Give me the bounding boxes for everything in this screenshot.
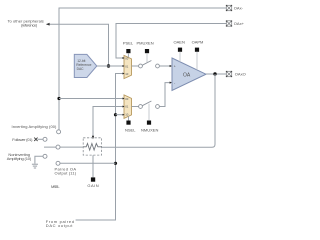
svg-text:(reference): (reference) bbox=[21, 23, 38, 28]
svg-text:DAC: DAC bbox=[77, 67, 85, 71]
NSEL control square and stem bbox=[128, 116, 130, 120]
arrowhead to other peripherals bbox=[46, 23, 50, 26]
svg-text:DAC output: DAC output bbox=[46, 223, 73, 228]
wire NSEL input 10 bbox=[116, 114, 125, 116]
mux NSEL bbox=[123, 95, 132, 119]
svg-text:Inverting Amplifying (00): Inverting Amplifying (00) bbox=[12, 124, 58, 129]
svg-text:NSEL: NSEL bbox=[125, 128, 136, 133]
switch PMUXEN: contacts and arm bbox=[139, 61, 160, 68]
OAEN control square and line bbox=[178, 48, 182, 52]
switch pole MSEL bbox=[56, 145, 60, 149]
GAIN control square bbox=[91, 177, 95, 181]
svg-text:PSEL: PSEL bbox=[123, 40, 134, 45]
wire resistor bottom to GAIN bbox=[92, 155, 94, 177]
NMUXEN control square and line bbox=[148, 104, 150, 121]
svg-text:01: 01 bbox=[125, 64, 129, 68]
svg-text:MSEL: MSEL bbox=[51, 184, 60, 189]
node junction NSEL input 10 bbox=[114, 113, 117, 116]
svg-text:GAIN: GAIN bbox=[87, 183, 98, 188]
svg-text:Follower (01): Follower (01) bbox=[12, 137, 33, 142]
svg-text:Output (11): Output (11) bbox=[55, 171, 77, 176]
switch contact MSEL (01) follower bbox=[43, 137, 47, 141]
DAC U1: 12-bit Reference DAC bbox=[74, 54, 97, 77]
no-connect X for follower option bbox=[34, 138, 37, 141]
svg-text:+: + bbox=[174, 65, 176, 69]
node junction paired line to MSEL (11) row bbox=[114, 162, 117, 165]
wire OAx- net: pin to left vertical down to MSEL (00) contact bbox=[59, 8, 226, 130]
wire DAC output to PSEL input 01 bbox=[97, 65, 124, 67]
svg-text:10: 10 bbox=[125, 113, 129, 117]
switch contact MSEL (10) noninverting bbox=[43, 154, 47, 158]
arrowhead into resistor bbox=[92, 136, 94, 140]
op-amp OA bbox=[172, 58, 206, 91]
wire follower X to contact bbox=[38, 138, 43, 140]
resistor (programmable, dashed box) bbox=[83, 138, 101, 155]
svg-text:00: 00 bbox=[125, 97, 129, 101]
wire switch to op-amp + input bbox=[159, 65, 170, 67]
wire resistor top to NSEL input 01 bbox=[93, 107, 124, 137]
svg-text:10: 10 bbox=[125, 72, 129, 76]
wire PSEL control stem bbox=[127, 53, 129, 57]
PMUXEN control square and line bbox=[145, 49, 149, 53]
PSEL control square bbox=[126, 49, 130, 53]
svg-text:Amplifying (10): Amplifying (10) bbox=[7, 156, 32, 161]
OAPM control square and line bbox=[195, 48, 199, 52]
wire feedback from output down and left to resistor bbox=[102, 74, 215, 147]
svg-text:OAx+: OAx+ bbox=[234, 21, 245, 26]
wire paired DAC output vertical net bbox=[76, 74, 124, 221]
wire OAx+ net: pin to PSEL input 00 bbox=[116, 24, 226, 59]
wire MSEL (11) row to paired vertical bbox=[58, 162, 116, 164]
switch NMUXEN: contacts and arm bbox=[139, 101, 160, 108]
wire MSEL pole row to resistor left bbox=[44, 146, 83, 148]
svg-text:01: 01 bbox=[125, 105, 129, 109]
wire PSEL mux output bbox=[132, 65, 139, 67]
wire ground to noninverting contact bbox=[35, 156, 43, 163]
ground bbox=[32, 164, 38, 168]
wire NSEL mux output bbox=[132, 106, 139, 108]
pin OAx- bbox=[226, 5, 244, 11]
wire switch to op-amp - input bbox=[159, 83, 170, 107]
switch contact MSEL (11) paired bbox=[56, 161, 60, 165]
node output junction bbox=[213, 72, 216, 75]
wire NSEL input 00 bbox=[59, 98, 124, 100]
wire op-amp output to pin bbox=[206, 73, 226, 75]
svg-text:PMUXEN: PMUXEN bbox=[137, 40, 154, 45]
svg-text:OAx-: OAx- bbox=[234, 6, 244, 11]
switch contact MSEL (00) inverting bbox=[57, 130, 61, 134]
svg-text:NMUXEN: NMUXEN bbox=[141, 128, 158, 133]
svg-text:OA: OA bbox=[183, 72, 191, 78]
wire reference net to other peripherals bbox=[47, 24, 109, 66]
node junction on OAx- vertical feeding NSEL input 00 bbox=[57, 97, 60, 100]
svg-text:OAxO: OAxO bbox=[235, 72, 246, 77]
pin OAx+ bbox=[226, 20, 245, 26]
mux PSEL bbox=[123, 55, 132, 78]
node DAC output junction bbox=[107, 64, 110, 67]
svg-text:OAPM: OAPM bbox=[192, 39, 204, 44]
pin OAxO bbox=[226, 71, 246, 77]
svg-text:OAEN: OAEN bbox=[174, 39, 185, 44]
